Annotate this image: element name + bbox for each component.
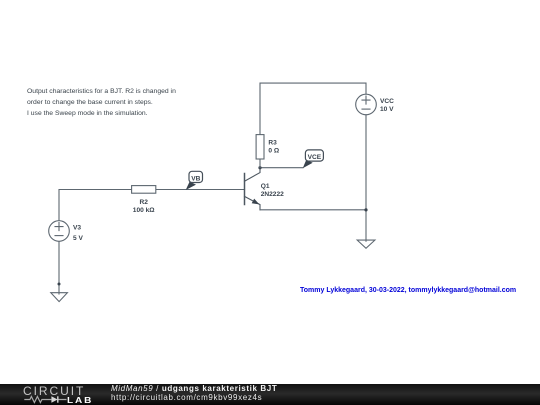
node VCE flag: [303, 150, 324, 168]
note text: [27, 86, 176, 119]
node: [58, 283, 61, 286]
svg-text:V3: V3: [73, 224, 81, 231]
ground: [51, 293, 68, 302]
svg-text:0 Ω: 0 Ω: [268, 148, 279, 155]
wire: [58, 241, 60, 294]
voltage source V3: [49, 221, 70, 242]
wire: [260, 167, 303, 169]
resistor R3: [256, 135, 264, 159]
CircuitLab logo: [23, 384, 95, 405]
wire: [260, 209, 366, 211]
node junction: [258, 166, 261, 169]
svg-text:VCC: VCC: [380, 98, 394, 105]
transistor Q1: [245, 168, 261, 210]
svg-text:VB: VB: [191, 175, 200, 182]
wire: [365, 115, 367, 241]
svg-text:VCE: VCE: [308, 154, 322, 161]
voltage source VCC: [356, 94, 377, 115]
wire: [260, 83, 366, 168]
svg-text:100 kΩ: 100 kΩ: [133, 207, 156, 214]
svg-text:Q1: Q1: [261, 183, 270, 190]
wire: [59, 190, 132, 221]
node VB flag: [186, 171, 203, 190]
svg-text:10 V: 10 V: [380, 106, 394, 113]
svg-text:R2: R2: [139, 199, 148, 206]
svg-text:2N2222: 2N2222: [261, 191, 284, 198]
ground: [357, 240, 375, 248]
svg-text:5 V: 5 V: [73, 235, 83, 242]
footer title: [111, 385, 277, 402]
resistor R2: [132, 186, 156, 194]
wire: [156, 189, 245, 191]
annotation: [300, 287, 516, 294]
svg-text:R3: R3: [268, 139, 277, 146]
node junction: [364, 208, 367, 211]
